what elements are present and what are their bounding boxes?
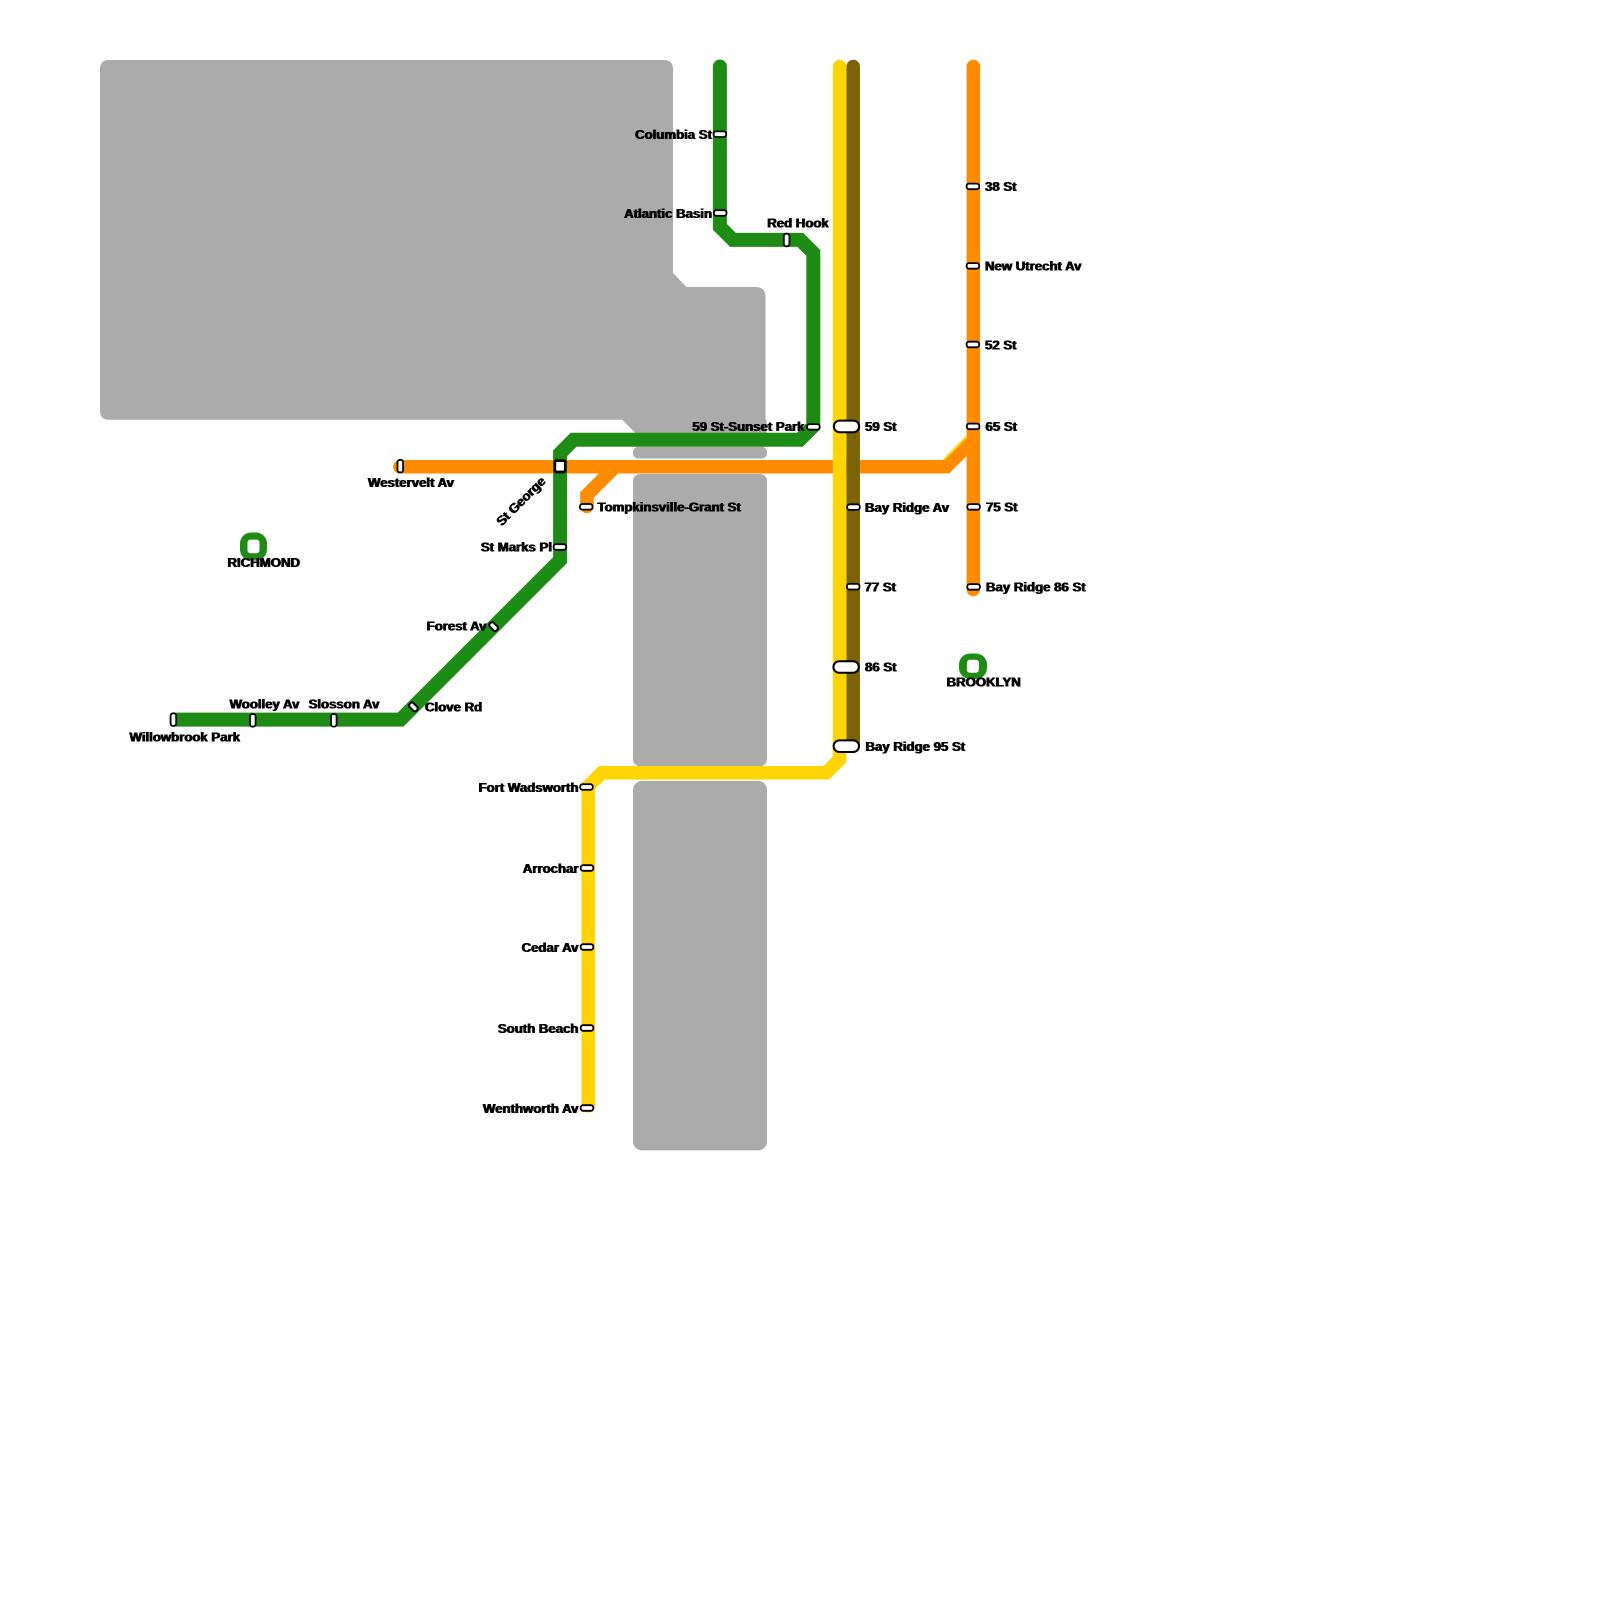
yellow line	[588, 67, 839, 1106]
svg-text:Fort Wadsworth: Fort Wadsworth	[478, 780, 578, 795]
svg-text:Willowbrook Park: Willowbrook Park	[129, 730, 240, 745]
station 77 St	[847, 584, 860, 590]
svg-text:Atlantic Basin: Atlantic Basin	[624, 206, 712, 221]
green line main	[177, 67, 814, 720]
svg-text:Slosson Av: Slosson Av	[308, 697, 380, 712]
svg-text:Bay Ridge 86 St: Bay Ridge 86 St	[986, 580, 1086, 595]
station Columbia St	[714, 131, 727, 137]
svg-text:Cedar Av: Cedar Av	[521, 940, 579, 955]
svg-text:South Beach: South Beach	[497, 1021, 578, 1036]
svg-text:59 St-Sunset Park: 59 St-Sunset Park	[692, 419, 805, 434]
station Forest Av (diamond)	[488, 621, 499, 632]
svg-text:New Utrecht Av: New Utrecht Av	[985, 259, 1082, 274]
station Tompkinsville-Grant St	[580, 504, 593, 510]
station Bay Ridge 86 St	[967, 584, 980, 590]
station Red Hook	[784, 234, 790, 247]
station Cedar Av	[581, 944, 594, 950]
land connector below landmass	[622, 420, 767, 434]
station Westervelt Av	[398, 460, 404, 473]
station 65 St	[967, 424, 980, 430]
station 59 St-Sunset Park	[807, 424, 820, 430]
station 38 St	[967, 184, 980, 190]
svg-text:Bay Ridge 95 St: Bay Ridge 95 St	[865, 739, 965, 754]
station Woolley Av	[250, 714, 256, 727]
svg-text:Tompkinsville-Grant St: Tompkinsville-Grant St	[597, 500, 741, 515]
svg-text:BROOKLYN: BROOKLYN	[946, 675, 1020, 690]
svg-text:65 St: 65 St	[985, 419, 1017, 434]
station Bay Ridge 95 St (ellipse)	[834, 740, 859, 752]
yellow sliver at orange junction	[944, 437, 967, 460]
station 59 St (ellipse)	[834, 421, 859, 433]
station 75 St	[967, 504, 980, 510]
station Wenthworth Av	[581, 1105, 594, 1111]
svg-text:75 St: 75 St	[986, 500, 1018, 515]
station South Beach	[581, 1025, 594, 1031]
svg-text:Westervelt Av: Westervelt Av	[368, 475, 455, 490]
svg-text:Arrochar: Arrochar	[522, 861, 578, 876]
BROOKLYN bullet	[959, 654, 987, 680]
station 86 St (ellipse)	[833, 661, 858, 673]
svg-text:RICHMOND: RICHMOND	[227, 555, 300, 570]
svg-text:59 St: 59 St	[865, 419, 897, 434]
svg-text:Forest Av: Forest Av	[426, 619, 487, 634]
station Fort Wadsworth	[580, 784, 593, 790]
orange line west branch	[400, 440, 973, 467]
station Arrochar	[581, 865, 594, 871]
svg-text:52 St: 52 St	[985, 337, 1017, 352]
landmass upper-left gray	[100, 60, 766, 420]
station Atlantic Basin	[714, 210, 727, 216]
svg-text:Red Hook: Red Hook	[767, 216, 829, 231]
station New Utrecht Av	[967, 263, 980, 269]
svg-text:Clove Rd: Clove Rd	[425, 700, 482, 715]
svg-text:Columbia St: Columbia St	[635, 127, 713, 142]
station Willowbrook Park	[171, 713, 177, 726]
svg-text:77 St: 77 St	[864, 580, 896, 595]
svg-text:86 St: 86 St	[865, 660, 897, 675]
orange line vertical (right)	[967, 67, 981, 590]
svg-text:Wenthworth Av: Wenthworth Av	[483, 1101, 579, 1116]
station Bay Ridge Av	[847, 504, 860, 510]
land strip chunk B	[633, 781, 767, 1151]
station Slosson Av	[331, 714, 337, 727]
station 52 St	[967, 342, 980, 348]
land strip chunk A	[633, 474, 767, 766]
land sliver between green and orange lines	[633, 447, 767, 459]
svg-text:St Marks Pl: St Marks Pl	[480, 540, 551, 555]
svg-text:Woolley Av: Woolley Av	[229, 697, 300, 712]
station St George (square)	[555, 461, 565, 472]
olive line	[846, 67, 860, 747]
orange tompkinsville branch	[587, 469, 613, 507]
station Clove Rd (diamond)	[408, 702, 419, 713]
svg-text:38 St: 38 St	[985, 179, 1017, 194]
svg-text:Bay Ridge Av: Bay Ridge Av	[865, 500, 950, 515]
RICHMOND bullet	[240, 533, 267, 561]
station St Marks Pl	[554, 544, 567, 550]
